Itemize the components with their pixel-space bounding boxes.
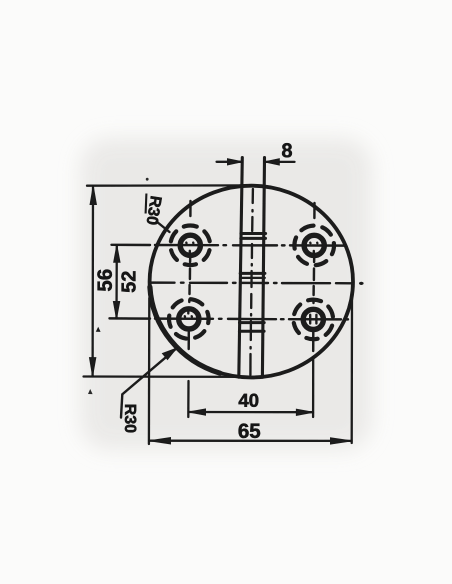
hole top-right: inner marks <box>310 243 317 254</box>
speck left of 25 dimension <box>96 327 101 332</box>
hole top-right: countersink dashed circle <box>287 218 342 273</box>
knuckle divider 3b <box>239 330 264 333</box>
dim 65 left: value text "65" (rotated) <box>97 270 112 292</box>
dim 65 bottom: value text "65" <box>239 424 261 439</box>
hole top-left: inner marks <box>186 243 193 254</box>
dim 8: left arrow (points right) <box>228 159 243 165</box>
dim 65 bottom: right arrow (points right) <box>331 438 352 444</box>
dim 25: bottom arrow (points down) <box>113 302 119 319</box>
horizontal centre line, middle (y=283) <box>151 281 362 284</box>
dim 40: extension line left (x=188) <box>187 381 189 417</box>
dim 25: top arrow (points up) <box>114 245 120 262</box>
radius label R30 top (rotated) <box>147 196 162 224</box>
dim 8: right arrow (points left) <box>265 159 280 165</box>
knuckle divider 2b <box>240 277 265 279</box>
speck below left 65 dim <box>88 389 93 394</box>
knuckle divider 2a <box>240 272 265 275</box>
dim 40: right arrow (points right) <box>296 409 313 415</box>
dim 65 bottom: left arrow (points left) <box>149 438 170 444</box>
dim 65 left: bottom arrow (points down) <box>90 358 96 376</box>
knuckle divider 1b <box>241 237 266 240</box>
knuckle left line (extends up as extension line for dim 8) <box>239 158 243 378</box>
scan gray wash over drawing area <box>80 138 372 450</box>
dim 65 bottom: dimension line <box>150 440 352 442</box>
R30 bottom: arrowhead on circle <box>163 348 177 359</box>
hinge body outline (main circle) <box>150 186 353 378</box>
hole bottom-right: inner marks <box>310 315 316 324</box>
dim 65 left: extension line top (y=186) <box>87 184 249 187</box>
dim 65 bottom: extension line right (x=352) <box>351 296 354 443</box>
dim 65 left: dimension line <box>91 187 94 376</box>
hole bottom-left: countersink dashed circle <box>166 296 212 342</box>
vertical centre line through right holes (x=314) <box>313 203 314 351</box>
knuckle right line (extends up as extension line for dim 8) <box>262 158 264 378</box>
pin centre line (vertical dash-dot in knuckle) <box>250 189 253 375</box>
knuckle divider 3a <box>240 321 265 324</box>
dim 40: value text "40" <box>239 394 259 407</box>
dim 8: dimension line right segment <box>265 161 295 163</box>
horizontal centre line, bottom hole row (y=319) <box>110 318 349 319</box>
dim 40: left arrow (points left) <box>189 409 206 415</box>
R30 bottom: leader line with bend <box>121 349 176 418</box>
dim 8: value text "8" <box>282 143 292 157</box>
R30 top: leader line <box>157 222 170 233</box>
dim 65 left: extension line bottom (y=377) <box>84 375 257 378</box>
vertical centre line through left holes (x=190) <box>189 201 191 349</box>
stray stroke left of R30 top <box>145 194 148 214</box>
knuckle divider 1a <box>241 232 266 235</box>
dim 8: dimension line left segment <box>217 161 242 163</box>
dim 40: dimension line <box>189 411 313 414</box>
hole top-left: countersink dashed circle <box>166 221 214 269</box>
centre line dot right of circle <box>360 282 363 285</box>
hole top-right: ring <box>304 235 324 255</box>
hole bottom-left: ring <box>179 309 199 329</box>
heavier inked bottom-left arc of outline <box>150 287 220 373</box>
hole top-left: ring <box>180 235 200 255</box>
hole bottom-left: inner marks <box>185 311 192 317</box>
hole bottom-right: ring <box>303 309 323 329</box>
speck above R30 top <box>146 178 149 181</box>
dim 65 bottom: extension line left (x=149) <box>148 298 151 444</box>
horizontal centre line, top hole row (y=245) <box>112 244 347 247</box>
dim 25: value text "25" (rotated) <box>121 271 135 292</box>
dim 40: extension line right (x=313) <box>312 358 314 417</box>
hole bottom-right: countersink dashed circle <box>290 296 336 342</box>
radius label R30 bottom (rotated) <box>125 405 136 433</box>
dim 65 left: top arrow (points up) <box>90 186 96 204</box>
dim 25: dimension line <box>115 246 118 319</box>
